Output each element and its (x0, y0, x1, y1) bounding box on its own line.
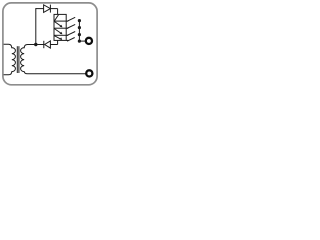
rectifier column tap rung 1 (54, 20, 68, 22)
selector blade 1 (67, 17, 76, 21)
terminal X2 (86, 70, 92, 76)
wire primary bottom lead (4, 71, 12, 75)
contact dot 4 (78, 40, 81, 43)
wire D1 cathode to corner (50, 8, 57, 10)
junction dot main bus / secondary (34, 43, 37, 46)
rectifier column U1 body (54, 14, 66, 40)
internal diode arrow diag3 (54, 36, 61, 40)
wire primary top lead (4, 44, 12, 48)
transformer T1 primary winding (12, 48, 16, 72)
transformer T1 core line 2 (18, 46, 20, 73)
wire secondary top lead (24, 45, 44, 49)
contact bus vertical (78, 21, 80, 42)
diode D1 (44, 5, 51, 13)
terminal X1 (86, 38, 92, 44)
contact dot 3 (78, 33, 81, 36)
transformer T1 core line 1 (16, 46, 18, 73)
diode D2 (45, 41, 51, 48)
internal diode arrowhead 3 (59, 37, 62, 39)
diode D2 cathode bar (43, 41, 45, 48)
wire corner up into rectifier column bottom (57, 40, 59, 44)
border frame (3, 3, 97, 85)
wire D2 to corner (50, 44, 57, 46)
background (0, 0, 100, 88)
internal diode arrow diag2 (54, 29, 62, 34)
transformer T1 secondary winding (21, 48, 25, 72)
wire corner down into rectifier column top (57, 9, 59, 15)
internal diode arrowhead 1 (60, 25, 63, 28)
selector blade 4 (67, 38, 75, 42)
wire contact bus to terminal X1 (79, 40, 85, 42)
rectifier column tap rung 2 (54, 27, 68, 29)
wire secondary bottom lead to terminal X2 (24, 71, 86, 74)
selector blade 3 (67, 32, 76, 36)
diode D1 cathode bar (49, 5, 51, 13)
rectifier column tap stub bottom (66, 39, 68, 41)
contact dot 1 (78, 19, 81, 22)
rectifier column tap rung 3 (54, 34, 68, 36)
internal diode arrow diag1 (54, 22, 62, 27)
wire top bus to D1 anode (36, 8, 44, 10)
internal wire diag0 (54, 15, 58, 21)
wire vertical bus left (35, 8, 37, 44)
internal diode arrowhead 2 (60, 32, 63, 35)
selector blade 2 (67, 24, 76, 28)
contact dot 2 (78, 26, 81, 29)
